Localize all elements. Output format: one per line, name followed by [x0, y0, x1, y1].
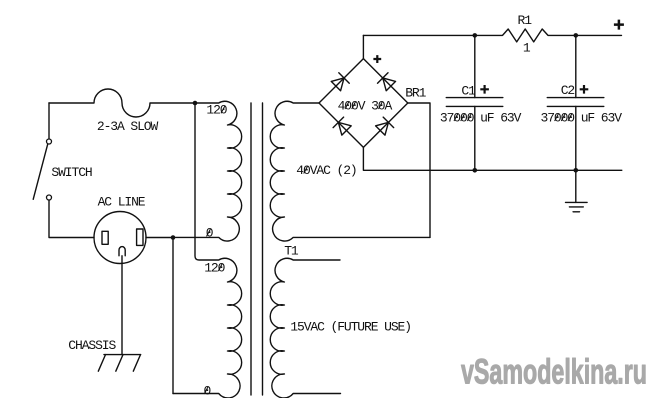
svg-text:400V 30A: 400V 30A: [338, 98, 393, 113]
svg-text:37000 uF 63V: 37000 uF 63V: [541, 110, 623, 125]
svg-text:15VAC (FUTURE USE): 15VAC (FUTURE USE): [290, 320, 411, 335]
svg-text:120: 120: [204, 260, 224, 275]
svg-text:CHASSIS: CHASSIS: [68, 338, 116, 353]
svg-text:2-3A SLOW: 2-3A SLOW: [97, 119, 159, 134]
svg-text:1: 1: [523, 40, 531, 55]
svg-text:SWITCH: SWITCH: [51, 165, 92, 180]
svg-text:37000 uF 63V: 37000 uF 63V: [440, 110, 522, 125]
svg-text:R1: R1: [518, 13, 533, 28]
svg-text:C1: C1: [461, 84, 476, 99]
svg-text:AC LINE: AC LINE: [98, 195, 146, 210]
svg-text:120: 120: [206, 103, 226, 118]
svg-text:T1: T1: [284, 243, 299, 258]
svg-text:C2: C2: [561, 83, 575, 98]
svg-text:vSamodelkina.ru: vSamodelkina.ru: [461, 353, 647, 392]
svg-text:0: 0: [204, 383, 211, 398]
svg-text:BR1: BR1: [405, 86, 426, 101]
svg-text:0: 0: [206, 226, 213, 241]
